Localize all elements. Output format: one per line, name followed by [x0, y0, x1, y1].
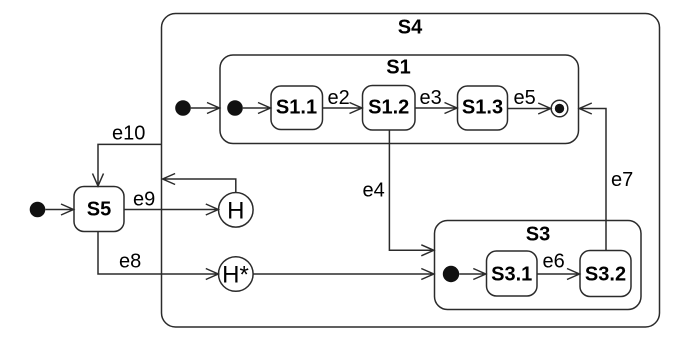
svg-text:S1.3: S1.3 [462, 97, 503, 119]
label S1 [386, 57, 410, 79]
svg-text:S4: S4 [398, 17, 423, 39]
label H* [222, 262, 249, 289]
state S3.1 [487, 251, 538, 296]
wire S3-initial to S3.1 [459, 269, 486, 280]
wire H* to S3 border [253, 269, 434, 280]
state S3.2 [580, 251, 631, 297]
label e5 [514, 87, 536, 109]
history pseudostate H [219, 193, 254, 228]
svg-text:e6: e6 [543, 251, 565, 273]
initial pseudostate (top-level) [30, 202, 46, 218]
svg-text:S3.1: S3.1 [491, 264, 532, 286]
transition e9 [124, 204, 218, 215]
label e10 [112, 123, 145, 145]
svg-text:S1.1: S1.1 [276, 97, 317, 119]
transition e3 [415, 103, 457, 114]
label e8 [119, 251, 141, 273]
transition e5 [508, 103, 551, 114]
state S1 [220, 55, 579, 144]
label e4 [363, 180, 385, 202]
svg-text:S5: S5 [87, 198, 111, 220]
svg-text:S1.2: S1.2 [368, 97, 409, 119]
label S1.3 [462, 97, 503, 119]
svg-text:e7: e7 [611, 169, 633, 191]
initial pseudostate of S1 [227, 100, 243, 116]
label S3.2 [585, 264, 626, 286]
label e6 [543, 251, 565, 273]
wire H to S4 border [163, 174, 236, 193]
state S1.3 [458, 86, 508, 130]
transition e4 [389, 130, 433, 256]
svg-text:e8: e8 [119, 251, 141, 273]
label e7 [611, 169, 633, 191]
svg-text:e9: e9 [133, 189, 155, 211]
label S1.2 [368, 97, 409, 119]
svg-text:S1: S1 [386, 57, 410, 79]
state S4 [162, 14, 660, 328]
label S1.1 [276, 97, 317, 119]
svg-text:S3.2: S3.2 [585, 264, 626, 286]
svg-text:H*: H* [222, 262, 249, 289]
state S5 [74, 187, 124, 232]
initial pseudostate of S3 [443, 266, 459, 282]
svg-text:e5: e5 [514, 87, 536, 109]
deep history pseudostate H* [219, 257, 254, 292]
wire S1-initial to S1.1 [243, 103, 271, 114]
transition e10 [93, 144, 162, 186]
svg-text:e2: e2 [328, 87, 350, 109]
transition e2 [323, 103, 363, 114]
svg-text:e3: e3 [420, 87, 442, 109]
label e9 [133, 189, 155, 211]
svg-text:e4: e4 [363, 180, 385, 202]
label S5 [87, 198, 111, 220]
label S3.1 [491, 264, 532, 286]
transition e6 [537, 269, 580, 280]
state S1.2 [363, 86, 416, 131]
final state of S1 [551, 100, 568, 117]
transition e8 [98, 232, 218, 280]
label H [227, 198, 244, 225]
svg-text:H: H [227, 198, 244, 225]
label e2 [328, 87, 350, 109]
label e3 [420, 87, 442, 109]
state S1.1 [271, 86, 323, 130]
wire initial to S5 [45, 204, 73, 215]
wire S4-initial to S1 [191, 103, 220, 114]
label S4 [398, 17, 423, 39]
initial pseudostate of S4 [175, 100, 191, 116]
state S3 [435, 221, 642, 310]
svg-text:S3: S3 [526, 224, 550, 246]
transition e7 [579, 103, 606, 250]
label S3 [526, 224, 550, 246]
svg-text:e10: e10 [112, 123, 145, 145]
